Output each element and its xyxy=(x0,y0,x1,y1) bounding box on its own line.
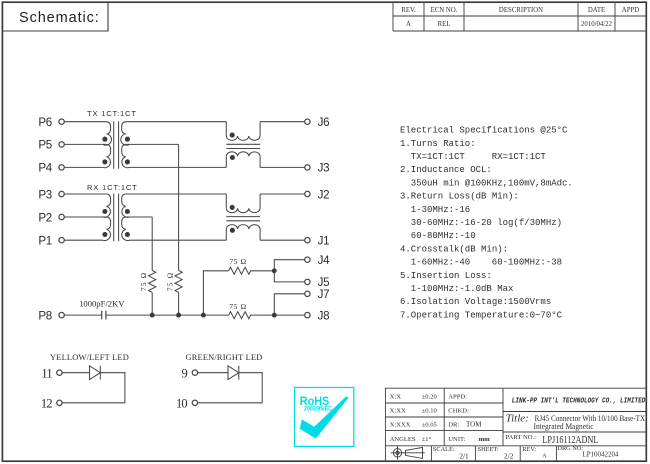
svg-text:1.Turns Ratio:: 1.Turns Ratio: xyxy=(400,139,476,149)
svg-text:REV.: REV. xyxy=(401,7,416,14)
resistor R2 75ohm vertical xyxy=(175,270,182,315)
pin 11 terminal xyxy=(57,370,62,375)
svg-text:TOM: TOM xyxy=(466,420,482,428)
pin J5 terminal xyxy=(305,279,310,284)
svg-text:J3: J3 xyxy=(318,162,330,175)
pin J3 terminal xyxy=(305,165,310,170)
svg-text:LPJ16112ADNL: LPJ16112ADNL xyxy=(542,434,598,446)
LED D2 cathode bar xyxy=(238,366,240,380)
pin 9 terminal xyxy=(192,370,197,375)
svg-text:11: 11 xyxy=(41,366,52,380)
revision table xyxy=(393,2,646,31)
transformer T2 primary winding P3-P2 xyxy=(64,194,110,217)
capacitor C1 plates xyxy=(102,311,106,320)
svg-text:UNIT:: UNIT: xyxy=(448,436,465,443)
phase dot choke L1 bottom xyxy=(230,155,235,160)
choke L2 top winding xyxy=(226,208,260,212)
svg-text:A: A xyxy=(406,21,411,28)
svg-text:±0.05: ±0.05 xyxy=(422,421,438,428)
third angle projection symbol xyxy=(391,446,425,460)
svg-text:2.Inductance OCL:: 2.Inductance OCL: xyxy=(400,165,492,175)
LED D2 loop wire xyxy=(198,373,263,403)
transformer T2 core xyxy=(114,194,119,242)
pin 10 terminal xyxy=(192,400,197,405)
svg-text:2010/04/22: 2010/04/22 xyxy=(581,21,613,28)
svg-text:75 Ω: 75 Ω xyxy=(165,272,174,291)
svg-text:4.Crosstalk(dB Min):: 4.Crosstalk(dB Min): xyxy=(400,244,508,254)
svg-text:X:XX: X:XX xyxy=(390,408,406,415)
choke L1 core xyxy=(226,144,260,148)
title block text xyxy=(390,394,619,461)
choke L2 right leg xyxy=(259,194,261,240)
svg-text:3.Return Loss(dB Min):: 3.Return Loss(dB Min): xyxy=(400,192,519,202)
svg-text:ECN NO.: ECN NO. xyxy=(431,7,458,14)
svg-text:TX=1CT:1CT RX=1CT:1CT: TX=1CT:1CT RX=1CT:1CT xyxy=(411,152,547,162)
choke L2 bottom winding xyxy=(226,225,260,229)
svg-text:P5: P5 xyxy=(38,139,52,152)
svg-text:75 Ω: 75 Ω xyxy=(229,302,246,311)
svg-text:A: A xyxy=(542,453,547,460)
junction dot rail R2 xyxy=(176,313,181,318)
svg-text:P6: P6 xyxy=(38,116,52,129)
RoHS logo xyxy=(295,388,354,447)
svg-text:1-60MHz:-40 60-100MHz:-38: 1-60MHz:-40 60-100MHz:-38 xyxy=(411,258,562,268)
choke L1 top winding xyxy=(226,136,260,140)
transformer T2 secondary winding upper xyxy=(122,194,227,217)
phase dot T2 secondary upper xyxy=(125,209,130,214)
electrical specifications text xyxy=(400,126,573,321)
svg-text:J2: J2 xyxy=(318,188,330,201)
wire R3 to J4 xyxy=(274,260,305,271)
phase dot T1 secondary lower xyxy=(125,159,130,164)
choke L1 right leg xyxy=(259,122,261,168)
svg-text:7.Operating Temperature:0~70°C: 7.Operating Temperature:0~70°C xyxy=(400,310,563,320)
svg-text:±0.20: ±0.20 xyxy=(422,394,438,401)
svg-text:DESCRIPTION: DESCRIPTION xyxy=(499,7,543,14)
svg-text:2/2: 2/2 xyxy=(504,452,514,461)
svg-text:LINK-PP INT'L TECHNOLOGY CO.,: LINK-PP INT'L TECHNOLOGY CO., LIMITED xyxy=(512,398,646,406)
svg-text:12: 12 xyxy=(41,397,52,411)
phase dot T1 secondary upper xyxy=(125,137,130,142)
pin J7 terminal xyxy=(305,291,310,296)
svg-text:PART NO.:: PART NO.: xyxy=(506,434,537,441)
phase dot choke L2 bottom xyxy=(230,228,235,233)
svg-text:Integrated Magnetic: Integrated Magnetic xyxy=(534,421,594,431)
svg-text:Schematic:: Schematic: xyxy=(19,10,100,26)
wire T1 center tap drop to R2 xyxy=(178,144,180,270)
svg-text:30-60MHz:-16-20 log(f/30MHz): 30-60MHz:-16-20 log(f/30MHz) xyxy=(411,218,562,228)
phase dot T2 primary lower xyxy=(102,232,107,237)
svg-text:75 Ω: 75 Ω xyxy=(229,257,246,266)
choke L1 left leg xyxy=(225,122,227,168)
transformer T1 primary winding P6-P5 xyxy=(64,122,111,146)
svg-text:DR:: DR: xyxy=(448,421,459,428)
transformer T1 primary winding P5-P4 xyxy=(64,144,110,167)
pin P4 terminal xyxy=(59,165,64,170)
svg-text:P1: P1 xyxy=(38,235,52,248)
choke L1 bottom winding xyxy=(226,152,260,156)
svg-text:350uH min @100KHz,100mV,8mAdc.: 350uH min @100KHz,100mV,8mAdc. xyxy=(411,178,573,188)
wire branch to R3 xyxy=(203,271,228,315)
title block frame xyxy=(385,388,646,461)
wire P4 xyxy=(64,166,103,168)
pin P5 terminal xyxy=(59,142,64,147)
pin P8 terminal xyxy=(59,312,64,317)
svg-text:P8: P8 xyxy=(38,309,52,322)
pin J8 terminal xyxy=(305,312,310,317)
wire choke L2 to J1 xyxy=(260,239,305,241)
phase dot choke L1 top xyxy=(230,133,235,138)
svg-text:YELLOW/LEFT LED: YELLOW/LEFT LED xyxy=(50,353,129,362)
svg-text:P3: P3 xyxy=(38,188,52,201)
wire T2 secondary bottom to choke xyxy=(130,239,227,241)
svg-text:±0.10: ±0.10 xyxy=(422,408,438,415)
wire P1 xyxy=(64,239,103,241)
resistor R4 75ohm on rail xyxy=(229,312,305,319)
svg-text:5.Insertion Loss:: 5.Insertion Loss: xyxy=(400,271,492,281)
phase dot T2 primary upper xyxy=(102,209,107,214)
pin 12 terminal xyxy=(57,400,62,405)
LED D1 triangle xyxy=(90,366,101,380)
svg-text:APPD: APPD xyxy=(622,7,639,14)
LED D1 wiring xyxy=(62,372,89,374)
svg-text:DRG NO:: DRG NO: xyxy=(557,445,583,452)
title text xyxy=(506,412,645,431)
schematic title box xyxy=(2,2,108,31)
transformer T2 secondary winding lower xyxy=(122,217,153,241)
LED D2 triangle xyxy=(228,366,239,380)
transformer T1 core xyxy=(114,121,119,169)
pin J4 terminal xyxy=(305,257,310,262)
svg-text:2/1: 2/1 xyxy=(459,452,469,461)
LED D1 cathode bar xyxy=(99,366,101,380)
transformer T2 primary winding P2-P1 xyxy=(64,217,110,241)
svg-text:2002/95/EC: 2002/95/EC xyxy=(304,407,333,413)
transformer T1 secondary winding lower xyxy=(122,144,179,167)
pin J1 terminal xyxy=(305,238,310,243)
svg-text:9: 9 xyxy=(181,366,187,380)
svg-text:75 Ω: 75 Ω xyxy=(139,272,148,291)
svg-text:10: 10 xyxy=(176,397,187,411)
svg-text:Title:: Title: xyxy=(506,412,529,424)
svg-text:DATE: DATE xyxy=(588,7,605,14)
phase dot T1 primary lower xyxy=(102,159,107,164)
svg-text:±1°: ±1° xyxy=(422,436,432,443)
choke L2 core xyxy=(226,217,260,221)
resistor R1 75ohm vertical xyxy=(149,270,156,315)
svg-text:ANGLES: ANGLES xyxy=(390,436,416,443)
wire T1 secondary bottom to choke xyxy=(130,166,227,168)
phase dot choke L2 top xyxy=(230,205,235,210)
wire T2 center tap drop to R1 xyxy=(151,217,153,270)
svg-text:J6: J6 xyxy=(318,116,330,129)
svg-text:CHKD:: CHKD: xyxy=(448,408,469,415)
wire R3 to J5 xyxy=(274,271,305,282)
transformer T1 secondary winding upper xyxy=(121,122,226,146)
svg-text:J1: J1 xyxy=(318,235,330,248)
pin P2 terminal xyxy=(59,214,64,219)
svg-text:J7: J7 xyxy=(318,288,330,301)
svg-text:1000pF/2KV: 1000pF/2KV xyxy=(79,299,125,309)
junction dot rail branch xyxy=(201,313,206,318)
svg-text:J4: J4 xyxy=(318,254,331,267)
svg-text:X:XXX: X:XXX xyxy=(390,421,411,428)
pin P1 terminal xyxy=(59,238,64,243)
wire J7 down to rail xyxy=(274,294,305,315)
resistor R3 75ohm horizontal xyxy=(229,267,275,274)
svg-text:60-80MHz:-10: 60-80MHz:-10 xyxy=(411,231,476,241)
pin P6 terminal xyxy=(59,119,64,124)
junction dot rail J7 xyxy=(272,313,277,318)
wire choke L1 to J3 xyxy=(260,166,305,168)
svg-text:REL: REL xyxy=(438,21,451,28)
svg-text:6.Isolation Voltage:1500Vrms: 6.Isolation Voltage:1500Vrms xyxy=(400,297,551,307)
pin J2 terminal xyxy=(305,191,310,196)
svg-text:SHEET:: SHEET: xyxy=(478,446,499,453)
svg-text:1-100MHz:-1.0dB Max: 1-100MHz:-1.0dB Max xyxy=(411,284,514,294)
svg-text:SCALE:: SCALE: xyxy=(433,446,455,453)
ground rail wire xyxy=(106,314,229,316)
svg-text:APPD:: APPD: xyxy=(448,394,467,401)
revision table text xyxy=(401,7,639,28)
svg-text:J8: J8 xyxy=(318,309,330,322)
wire choke L2 to J2 xyxy=(260,193,305,195)
svg-text:P2: P2 xyxy=(38,211,52,224)
junction dot J4 J5 xyxy=(272,268,277,273)
phase dot T1 primary upper xyxy=(102,137,107,142)
svg-text:REV:: REV: xyxy=(522,446,536,453)
LED D2 wiring xyxy=(198,372,228,374)
svg-text:mm: mm xyxy=(479,436,490,443)
svg-text:TX 1CT:1CT: TX 1CT:1CT xyxy=(87,109,137,118)
wire choke L1 to J6 xyxy=(260,121,305,123)
svg-text:LP10042204: LP10042204 xyxy=(582,452,619,459)
pin J6 terminal xyxy=(305,119,310,124)
svg-text:GREEN/RIGHT LED: GREEN/RIGHT LED xyxy=(185,353,262,362)
svg-text:Electrical Specifications @25°: Electrical Specifications @25°C xyxy=(400,126,568,136)
pin P3 terminal xyxy=(59,191,64,196)
LED D1 loop wire xyxy=(62,373,125,403)
svg-text:RX 1CT:1CT: RX 1CT:1CT xyxy=(87,183,138,192)
wire P8 to capacitor xyxy=(64,314,101,316)
junction dot rail R1 xyxy=(150,313,155,318)
svg-text:1-30MHz:-16: 1-30MHz:-16 xyxy=(411,205,470,215)
svg-text:P4: P4 xyxy=(38,162,52,175)
choke L2 left leg xyxy=(225,194,227,240)
phase dot T2 secondary lower xyxy=(125,232,130,237)
svg-text:X:X: X:X xyxy=(390,394,402,401)
